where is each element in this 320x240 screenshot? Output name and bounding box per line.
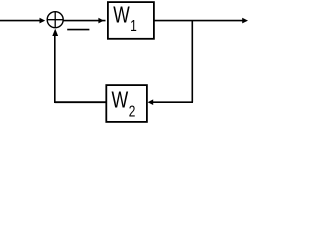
svg-text:1: 1 <box>130 16 137 34</box>
svg-text:W: W <box>113 4 130 29</box>
svg-text:2: 2 <box>129 102 136 120</box>
svg-text:W: W <box>112 87 129 113</box>
